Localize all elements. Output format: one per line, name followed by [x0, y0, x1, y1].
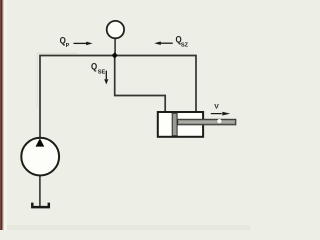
cylinder body: [158, 112, 203, 137]
scan echo artifact near corner: [37, 53, 78, 108]
svg-text:Q: Q: [91, 62, 97, 72]
gauge U1 (circle instrument): [107, 21, 124, 38]
piston: [172, 113, 177, 136]
wire: gauge stem: [114, 38, 116, 55]
wire: left riser + top main line + right drop to cylinder: [40, 56, 196, 138]
svg-text:P: P: [66, 43, 70, 49]
left scan edge strips: [0, 0, 1, 230]
pump P1: [21, 138, 59, 176]
wire: pump to tank: [39, 176, 41, 207]
wire: junction drop + horizontal run + drop into cylinder left port: [115, 56, 166, 113]
svg-text:V: V: [214, 103, 219, 110]
svg-text:SE: SE: [98, 70, 106, 76]
arrow Qse (down): [105, 71, 107, 80]
arrow Qsz (left): [161, 42, 173, 44]
pump flow triangle: [36, 138, 45, 146]
node junction dot: [112, 52, 118, 58]
piston rod: [178, 119, 236, 125]
arrow V (right): [211, 113, 222, 115]
tank T1: [32, 203, 49, 208]
svg-text:SZ: SZ: [181, 43, 189, 49]
bottom scan band: [0, 225, 250, 230]
arrow Qp (right): [74, 42, 87, 44]
rod pivot dot: [217, 119, 221, 123]
